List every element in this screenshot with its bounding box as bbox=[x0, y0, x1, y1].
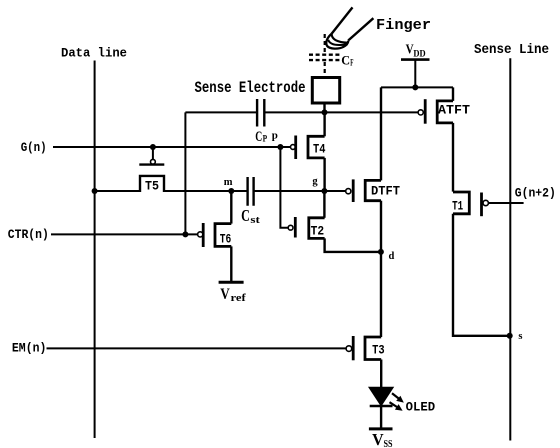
svg-text:SS: SS bbox=[384, 438, 393, 448]
wire CTR to sense-node branch (vertical x=185) bbox=[184, 112, 186, 234]
OLED cathode stem bbox=[380, 406, 382, 429]
capacitor CF dashed plates bbox=[309, 55, 340, 60]
transistor T5 gate bar bbox=[139, 163, 164, 165]
wire data row m (left) bbox=[95, 190, 140, 192]
node d dot bbox=[378, 249, 384, 255]
svg-text:d: d bbox=[389, 251, 395, 262]
transistor T2 source rail to d bbox=[325, 238, 381, 252]
transistor T5 gate stem bbox=[152, 147, 154, 159]
transistor T5 channel bump bbox=[140, 176, 164, 192]
transistor ATFT channel bracket bbox=[437, 101, 453, 123]
VDD label bbox=[406, 41, 426, 59]
svg-text:DTFT: DTFT bbox=[371, 183, 400, 198]
svg-text:T3: T3 bbox=[372, 342, 385, 357]
transistor DTFT gate circle bbox=[346, 189, 351, 194]
dashed stem finger to CF bbox=[324, 34, 326, 53]
transistor ATFT gate wire circle bbox=[418, 110, 423, 115]
svg-text:p: p bbox=[272, 130, 278, 142]
Sense Electrode box bbox=[312, 78, 339, 104]
node dot data line tap bbox=[92, 188, 98, 194]
transistor T4 source rail to g bbox=[323, 158, 325, 191]
finger tip outline bbox=[326, 34, 348, 49]
wire d to T3 bbox=[380, 252, 382, 337]
finger lower edge bbox=[348, 18, 373, 40]
svg-text:F: F bbox=[350, 57, 353, 67]
svg-text:V: V bbox=[220, 286, 230, 303]
svg-text:G(n+2): G(n+2) bbox=[515, 186, 556, 201]
svg-text:T2: T2 bbox=[311, 223, 325, 238]
VSS terminal bar bbox=[369, 427, 393, 430]
svg-text:C: C bbox=[255, 129, 262, 145]
svg-text:T1: T1 bbox=[452, 199, 463, 214]
transistor T6 channel bracket bbox=[215, 224, 231, 247]
OLED emission arrow 1 bbox=[392, 393, 404, 402]
svg-text:Sense Line: Sense Line bbox=[474, 43, 549, 58]
svg-text:Data line: Data line bbox=[61, 46, 127, 61]
transistor T4 channel bracket bbox=[308, 136, 325, 158]
svg-text:g: g bbox=[312, 176, 318, 187]
svg-text:ATFT: ATFT bbox=[438, 103, 470, 118]
transistor T6 drain rail from m bbox=[230, 191, 232, 224]
transistor T6 source rail bbox=[230, 246, 232, 282]
transistor DTFT gate bar bbox=[352, 179, 355, 202]
wire sense node row (right of Cp) bbox=[264, 111, 418, 113]
svg-text:C: C bbox=[241, 206, 250, 225]
transistor T2 gate bar bbox=[294, 217, 297, 238]
svg-text:T6: T6 bbox=[220, 231, 232, 246]
finger nail upper arc bbox=[332, 34, 348, 43]
transistor T2 drain rail from g bbox=[323, 191, 325, 218]
transistor T1 channel bracket (mirrored) bbox=[453, 192, 469, 214]
capacitor Cst plates bbox=[248, 177, 254, 206]
transistor T3 gate bar bbox=[352, 336, 355, 360]
wire G(n) row bbox=[53, 146, 291, 148]
svg-text:G(n): G(n) bbox=[21, 140, 47, 155]
wire DTFT source to d bbox=[380, 201, 382, 252]
capacitor CF label bbox=[341, 52, 353, 67]
svg-text:DD: DD bbox=[413, 50, 425, 60]
wire T1 source down to s bbox=[453, 214, 510, 336]
transistor DTFT channel bracket bbox=[365, 180, 381, 200]
wire p branch vertical bbox=[280, 147, 288, 228]
svg-text:T4: T4 bbox=[313, 142, 326, 157]
svg-text:s: s bbox=[518, 331, 522, 342]
wire VDD row to ATFT drain bbox=[452, 87, 454, 101]
svg-text:V: V bbox=[372, 430, 384, 448]
transistor T6 gate circle bbox=[198, 232, 203, 237]
svg-text:m: m bbox=[224, 177, 233, 188]
node dot sense electrode junction bbox=[322, 109, 328, 115]
OLED emission arrow 2 bbox=[390, 402, 403, 411]
wire data row m (right of Cst) bbox=[254, 190, 346, 192]
node dot G(n)/T5 gate bbox=[150, 144, 156, 150]
svg-text:Sense Electrode: Sense Electrode bbox=[195, 79, 306, 97]
transistor T2 channel bracket bbox=[309, 218, 325, 239]
transistor T1 gate bar bbox=[480, 193, 483, 217]
svg-text:T5: T5 bbox=[145, 179, 159, 194]
svg-text:OLED: OLED bbox=[406, 400, 436, 415]
dashed stem CF to electrode bbox=[324, 62, 326, 76]
wire T3 source to OLED bbox=[380, 360, 382, 388]
Vref label bbox=[220, 286, 246, 304]
capacitor CP label bbox=[255, 129, 267, 145]
wire ATFT source to T1 bbox=[452, 123, 454, 192]
node s dot bbox=[507, 333, 513, 339]
capacitor Cst label bbox=[241, 206, 260, 226]
svg-text:st: st bbox=[250, 214, 260, 226]
transistor T3 gate circle bbox=[346, 346, 352, 352]
transistor T2 gate circle bbox=[288, 225, 293, 230]
wire VDD to DTFT drain bbox=[380, 87, 382, 180]
wire sense node row (left of Cp) bbox=[185, 111, 257, 113]
wire G(n+2) gate line bbox=[489, 202, 524, 204]
wire VDD row bbox=[381, 86, 453, 88]
svg-text:ref: ref bbox=[231, 292, 247, 304]
Sense Electrode stem bbox=[323, 103, 325, 112]
svg-text:EM(n): EM(n) bbox=[12, 340, 47, 355]
transistor ATFT gate bar bbox=[424, 99, 427, 124]
svg-text:CTR(n): CTR(n) bbox=[8, 227, 49, 242]
transistor T1 gate circle bbox=[483, 200, 488, 205]
wire EM(n) row bbox=[47, 347, 346, 349]
transistor T5 gate circle bbox=[151, 159, 156, 164]
transistor T3 channel bracket bbox=[365, 337, 381, 360]
svg-text:P: P bbox=[263, 135, 268, 145]
transistor T6 gate bar bbox=[202, 223, 205, 247]
node dot VDD junction bbox=[412, 84, 418, 90]
transistor DTFT gate wire bbox=[324, 190, 345, 192]
wire data row m (middle) bbox=[164, 190, 248, 192]
node m dot bbox=[228, 188, 234, 194]
Vref terminal bar bbox=[219, 281, 244, 284]
OLED cathode bar bbox=[370, 405, 393, 408]
OLED anode triangle bbox=[369, 387, 393, 406]
transistor T4 gate bar bbox=[294, 136, 297, 160]
Sense Line rail bbox=[509, 58, 511, 440]
wire CTR(n) row bbox=[51, 233, 197, 235]
VDD stem bbox=[414, 60, 416, 88]
capacitor CP plates bbox=[257, 99, 264, 127]
node g dot bbox=[321, 188, 327, 194]
transistor T4 drain rail bbox=[323, 112, 325, 136]
finger upper edge bbox=[332, 7, 353, 33]
VSS label bbox=[372, 430, 392, 448]
transistor T4 gate circle bbox=[291, 145, 296, 150]
VDD terminal bar bbox=[401, 58, 430, 61]
Data line rail bbox=[94, 61, 96, 439]
node dot CTR/T6 gate bbox=[182, 231, 188, 237]
svg-text:Finger: Finger bbox=[376, 18, 431, 34]
finger nail lower arc bbox=[328, 40, 347, 45]
svg-text:C: C bbox=[341, 52, 350, 67]
node p dot bbox=[277, 144, 283, 150]
